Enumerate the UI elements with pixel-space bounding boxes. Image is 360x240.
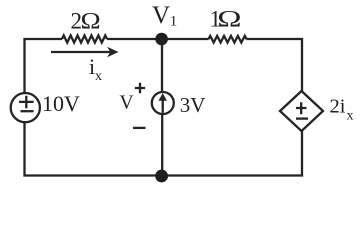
svg-text:Ω: Ω <box>81 9 101 34</box>
plus sign inside dependent source <box>296 102 307 114</box>
node V1 dot <box>155 33 168 46</box>
bottom node dot <box>155 170 168 183</box>
resistor 2Ω <box>62 35 107 42</box>
svg-text:10V: 10V <box>42 91 80 116</box>
dependent source U1 diamond <box>280 91 323 131</box>
svg-text:Ω: Ω <box>217 7 241 32</box>
arrow inside 3V source <box>162 100 164 113</box>
svg-text:V: V <box>120 93 134 114</box>
wire left-upper and top-left segment <box>25 39 63 92</box>
svg-text:x: x <box>95 69 102 84</box>
voltage source 10V circle <box>11 93 40 122</box>
minus sign of V annotation <box>133 127 146 129</box>
wire middle-lower segment <box>161 115 163 177</box>
svg-text:x: x <box>347 109 354 124</box>
current arrow ix <box>51 51 111 53</box>
source 3V circle <box>152 92 174 114</box>
svg-text:3V: 3V <box>180 93 206 117</box>
minus sign inside 10V source <box>21 110 34 112</box>
resistor 1Ω <box>209 36 247 43</box>
plus sign inside 10V source <box>19 96 34 109</box>
wire right-lower, bottom and left-lower segment <box>25 123 303 176</box>
wire top-middle segment <box>107 38 209 40</box>
svg-text:2i: 2i <box>330 96 346 118</box>
svg-text:V: V <box>152 2 170 29</box>
wire top-right and right-upper segment <box>247 39 303 92</box>
plus sign of V annotation <box>135 83 145 93</box>
wire middle-upper segment <box>161 39 163 93</box>
svg-text:1: 1 <box>170 13 178 29</box>
minus sign inside dependent source <box>296 117 308 119</box>
